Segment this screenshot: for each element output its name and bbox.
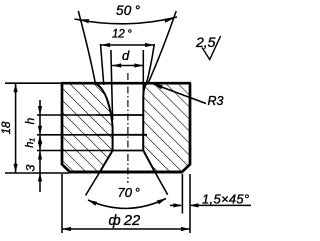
svg-text:R3: R3: [208, 94, 224, 108]
svg-text:2,5: 2,5: [195, 34, 216, 50]
svg-text:12 °: 12 °: [112, 29, 132, 41]
svg-text:50 °: 50 °: [116, 3, 141, 18]
svg-text:d: d: [122, 48, 130, 63]
svg-text:h: h: [23, 117, 37, 124]
svg-text:h₁: h₁: [24, 138, 36, 148]
svg-text:1,5×45°: 1,5×45°: [202, 192, 249, 207]
svg-text:18: 18: [1, 121, 13, 134]
svg-text:3: 3: [24, 164, 38, 171]
svg-text:70 °: 70 °: [118, 185, 140, 200]
svg-text:ф 22: ф 22: [109, 213, 141, 229]
